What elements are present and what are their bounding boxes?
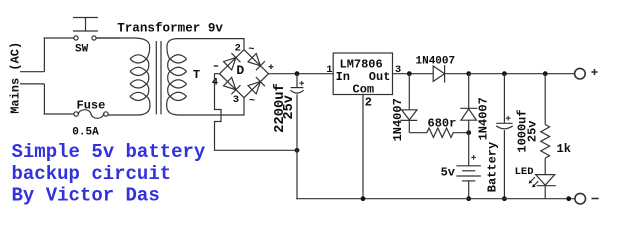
label + (bridge plus) (269, 64, 274, 69)
title line 2 (12, 163, 172, 185)
svg-text:backup circuit: backup circuit (12, 163, 172, 185)
svg-text:~: ~ (249, 95, 255, 107)
label 1k (557, 142, 571, 156)
pin 3 label (233, 94, 239, 106)
wire ground rail (296, 198, 574, 200)
wire 1k to LED (544, 158, 546, 175)
wire down to bottom rail (296, 150, 298, 200)
label - (output) (592, 198, 599, 200)
wire riser to switch (44, 37, 74, 71)
LED D4 (536, 175, 556, 199)
wire secondary bottom to bridge pin 3 (243, 98, 245, 116)
wire battery node down (468, 133, 470, 166)
junction at 1k top (543, 71, 548, 76)
wire Com pin 2 to ground (362, 95, 364, 199)
wire rail to + terminal (469, 73, 575, 75)
capacitor C1 2200uf (290, 74, 303, 151)
pin 4 label (212, 77, 218, 89)
resistor R2 1k (541, 125, 550, 159)
svg-text:1: 1 (326, 64, 332, 76)
title line 1 (12, 141, 206, 163)
label Com (353, 82, 375, 96)
label 0.5A (72, 127, 99, 139)
label LM7806 (340, 57, 383, 71)
svg-text:25v: 25v (282, 95, 297, 119)
junction at 2200uf top (295, 71, 300, 76)
svg-text:By Victor Das: By Victor Das (12, 185, 160, 207)
junction battery to rail (466, 196, 471, 201)
svg-text:1N4007: 1N4007 (391, 98, 405, 141)
terminal - output (575, 193, 586, 204)
terminal + output (575, 68, 586, 79)
svg-text:1k: 1k (557, 142, 571, 156)
svg-text:0.5A: 0.5A (72, 127, 99, 139)
diode D2 1N4007 (charging) (400, 74, 427, 133)
wire switch to transformer (96, 37, 120, 39)
bridge diode (4 to 3) (224, 78, 241, 95)
label In (336, 70, 350, 84)
svg-text:Simple 5v battery: Simple 5v battery (12, 141, 206, 163)
label Battery (486, 142, 500, 192)
label ~ top (248, 44, 254, 56)
junction Com to rail (361, 196, 366, 201)
switch SW (push button) (73, 18, 98, 41)
wire secondary top to bridge pin 2 (243, 38, 245, 50)
battery BT1 5v (456, 166, 481, 199)
title line 3 (12, 185, 160, 207)
bridge rectifier D frame (220, 50, 269, 98)
pin 3 label (395, 64, 401, 76)
wire bridge + to LM7806 In (268, 73, 333, 75)
svg-text:3: 3 (233, 94, 239, 106)
svg-text:25v: 25v (526, 120, 540, 142)
svg-text:T: T (193, 68, 200, 82)
pin 2 label (235, 42, 241, 54)
label T (193, 68, 200, 82)
svg-text:LM7806: LM7806 (340, 57, 383, 71)
junction after D1 (466, 71, 471, 76)
junction battery node (466, 130, 471, 135)
wire mains top lead (20, 71, 44, 73)
wire Out pin (393, 73, 434, 75)
svg-text:1N4007: 1N4007 (416, 56, 456, 68)
svg-text:D: D (236, 63, 244, 78)
label LED (515, 166, 534, 178)
op-amp/regulator U1 LM7806 box (333, 53, 392, 95)
LED arrows (529, 177, 539, 187)
polarity + of C2 (506, 116, 511, 121)
junction Out node (407, 71, 412, 76)
polarity + of C1 (299, 81, 304, 86)
label + (output) (591, 69, 597, 75)
label Fuse (77, 98, 106, 112)
label 25v (C1) (282, 95, 297, 119)
label - (bridge minus) (214, 65, 219, 67)
svg-text:2: 2 (235, 42, 241, 54)
junction at 2200uf bottom (295, 148, 300, 153)
pin 2 label (365, 96, 372, 110)
label SW (75, 43, 89, 55)
label 1000uf (515, 109, 529, 152)
polarity + of battery (471, 155, 476, 160)
label 1N4007 (D1) (416, 56, 456, 68)
svg-text:Mains (AC): Mains (AC) (8, 42, 22, 114)
junction pre-terminal (566, 196, 571, 201)
bridge diode (4 to 2) (224, 53, 241, 70)
label Transformer 9v (117, 22, 223, 36)
junction at 1000uf top (502, 71, 507, 76)
bridge diode (2 to +) (248, 54, 265, 71)
svg-text:680r: 680r (428, 116, 457, 130)
label 1N4007 (D3) (477, 97, 491, 140)
label D (236, 63, 244, 78)
node Mains (AC) label (8, 42, 22, 114)
diode D1 1N4007 (series) (433, 65, 469, 82)
bridge diode (3 to +) (248, 77, 265, 94)
transformer T secondary winding (167, 39, 244, 115)
label 2200uf (272, 83, 288, 133)
wire mains bottom lead (20, 83, 44, 85)
transformer T primary winding (96, 38, 150, 115)
transformer core (156, 41, 161, 114)
svg-text:Transformer 9v: Transformer 9v (117, 22, 223, 36)
label ~ bottom (249, 95, 255, 107)
diode D3 1N4007 (backup) (460, 74, 477, 133)
wire bridge pin 4 to ground rail (with hop) (215, 74, 298, 151)
wire 1k top (544, 74, 546, 125)
label 25v (C2) (526, 120, 540, 142)
resistor R1 680r (427, 128, 469, 137)
svg-text:SW: SW (75, 43, 89, 55)
label 680r (428, 116, 457, 130)
fuse F1 (74, 110, 108, 119)
label Out (369, 70, 391, 84)
label 5v (441, 166, 455, 180)
capacitor C2 1000uf (496, 74, 513, 199)
svg-text:Battery: Battery (486, 142, 500, 192)
svg-text:In: In (336, 70, 350, 84)
svg-text:~: ~ (248, 44, 254, 56)
svg-text:Com: Com (353, 82, 375, 96)
label 1N4007 (D2) (391, 98, 405, 141)
wire riser to fuse (44, 84, 74, 115)
svg-text:5v: 5v (441, 166, 455, 180)
svg-text:Fuse: Fuse (77, 98, 106, 112)
junction 1000uf to rail (502, 196, 507, 201)
svg-text:2: 2 (365, 96, 372, 110)
svg-text:1N4007: 1N4007 (477, 97, 491, 140)
svg-text:LED: LED (515, 166, 534, 178)
pin 1 label (326, 64, 332, 76)
